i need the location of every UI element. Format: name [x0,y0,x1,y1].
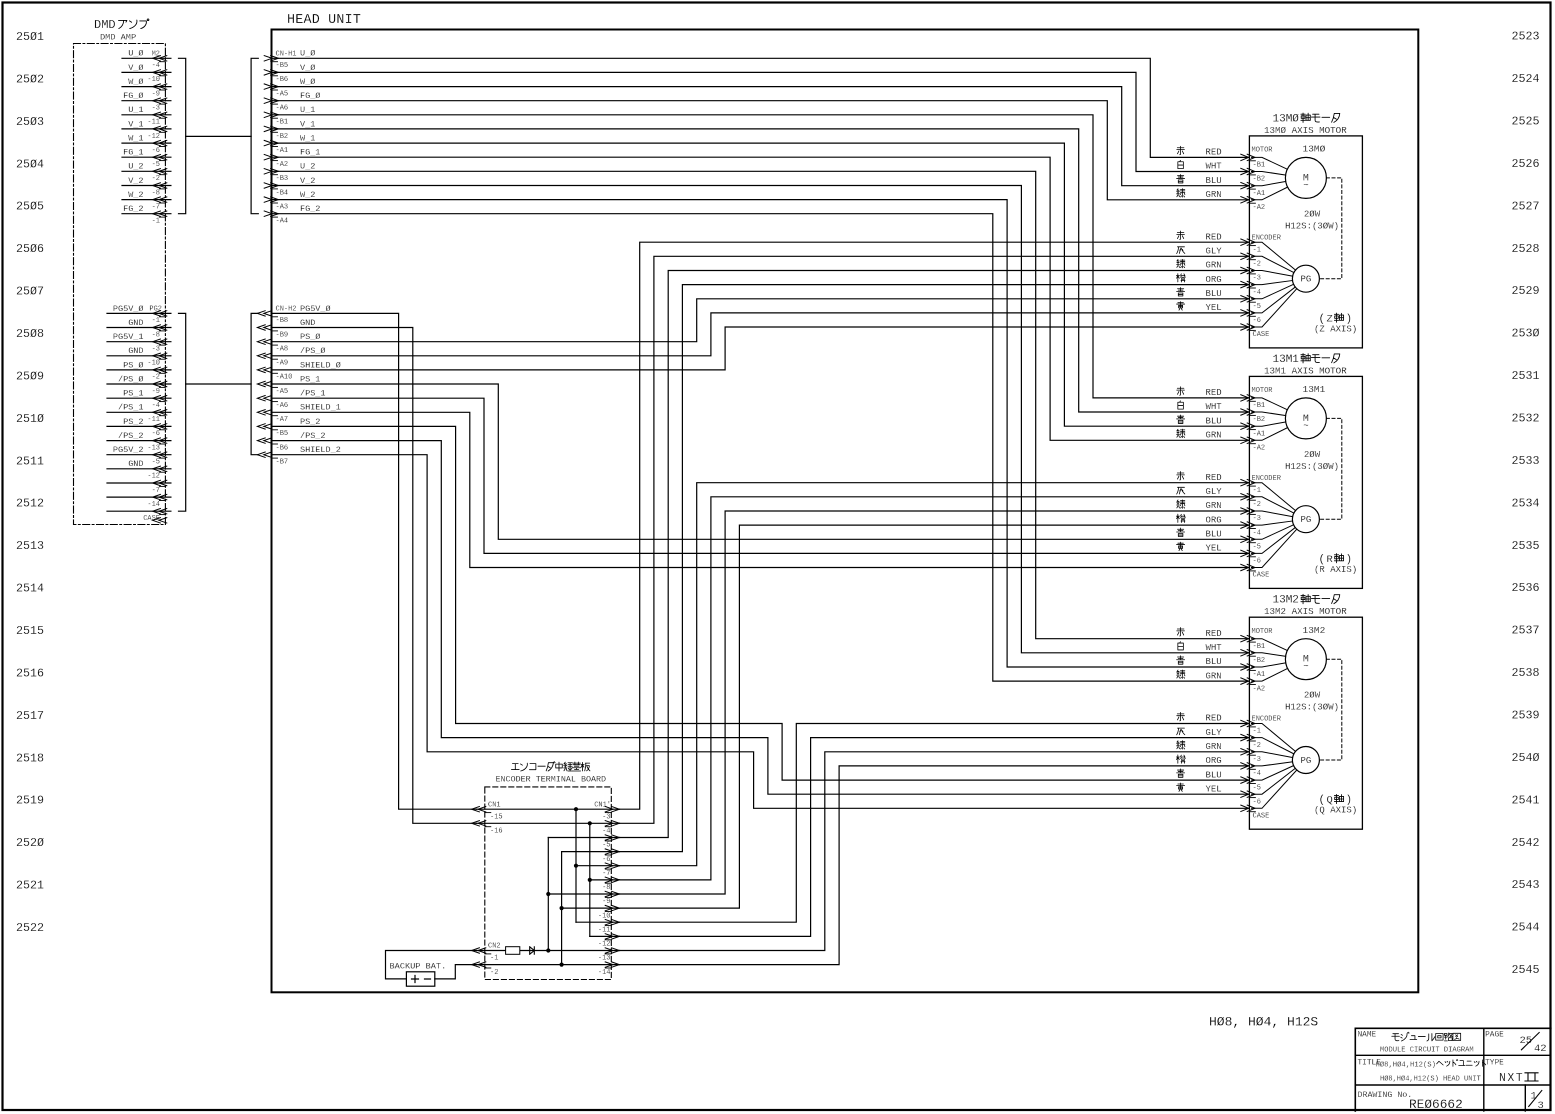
svg-text:2544: 2544 [1512,921,1540,935]
pin notch ENCODER -5 [1249,542,1255,544]
svg-text:-A2: -A2 [1253,445,1266,453]
motor box 13M0 [1249,136,1362,348]
connector pin chevron CN1' -14 [605,962,613,967]
svg-text:V_1: V_1 [128,119,143,129]
svg-text:-A6: -A6 [276,402,289,410]
wire board row8 BAT- axis1 [562,907,620,909]
wire DMD V_1 stub [122,128,171,130]
wire /PS_2 to 13M2 encoder -6 (YEL) with jog [272,441,1250,795]
svg-text:-6: -6 [1253,317,1261,325]
svg-text:2ØW: 2ØW [1304,691,1321,701]
wire V_1 CN-H1 to 13M1 motor [272,129,1250,412]
svg-text:U_1: U_1 [128,105,143,115]
pin lead ENCODER -6 13M2 [1252,768,1296,794]
svg-text:CASE: CASE [1253,572,1270,580]
colour kanji BLU [1177,528,1185,536]
svg-text:-8: -8 [152,189,160,197]
svg-text:WHT: WHT [1206,643,1223,653]
connector pin chevron PG2 -9 [159,381,167,386]
connector pin chevron CN-H1 -A3 [264,197,272,202]
svg-text:253Ø: 253Ø [1512,327,1540,341]
svg-text:GRN: GRN [1206,190,1222,200]
svg-text:-1: -1 [1253,246,1261,254]
svg-text:2545: 2545 [1512,963,1540,977]
pin notch MOTOR -B2 [1249,414,1255,416]
pin notch M2 -3 [159,103,165,105]
svg-text:H12S:(3ØW): H12S:(3ØW) [1285,221,1339,231]
svg-text:-B2: -B2 [1253,416,1266,424]
pin lead ENCODER -3 13M1 [1252,511,1293,517]
connector pin chevron CN-H2 -A10 [264,367,272,372]
svg-text:-12: -12 [147,473,160,481]
svg-text:-A7: -A7 [276,416,289,424]
pin notch MOTOR -B2 [1249,174,1255,176]
pin notch CN1' -4 [605,826,611,828]
svg-text:2516: 2516 [16,667,44,681]
svg-text:-A1: -A1 [1253,190,1266,198]
connector pin chevron CN-H1 -B4 [264,183,272,188]
junction GND bus top [588,821,592,825]
junction PG5V bus mid [574,864,578,868]
connector pin chevron CN1' -6 [605,849,613,854]
arrow into ENCODER pin -2 13M1 [1241,494,1249,500]
wire CN2-1 row through resistor/diode to CN1-prime -13 [477,950,620,952]
colour kanji BLU [1177,656,1185,664]
svg-text:DRAWING No.: DRAWING No. [1358,1091,1413,1100]
pin notch CN-H2 -A10 [272,372,278,374]
connector pin chevron PG2 -14 [159,494,167,499]
svg-text:2526: 2526 [1512,157,1540,171]
wire DMD U_2 stub [122,170,171,172]
svg-text:BLU: BLU [1206,657,1222,667]
svg-text:-8: -8 [152,331,160,339]
wire U_1 CN-H1 to 13M1 motor [272,115,1250,398]
wire DMD U_1 stub [122,114,171,116]
pin lead ENCODER -1 13M1 [1252,483,1296,511]
pin notch ENCODER -3 [1249,513,1255,515]
svg-text:-1: -1 [1253,728,1261,736]
svg-text:U_2: U_2 [300,162,315,172]
connector pin chevron CN-H1 -A1 [264,140,272,145]
wire DMD PG2 row -4 [107,397,171,399]
pin notch CN1 -16 [485,826,491,828]
arrow into MOTOR pin -B1 13M0 [1241,154,1249,160]
arrow into MOTOR pin -B1 13M1 [1241,395,1249,401]
svg-text:PG5V_1: PG5V_1 [113,332,144,342]
connector pin chevron PG2 -2 [159,367,167,372]
pin notch ENCODER -5 [1249,301,1255,303]
title block column line (1/3 cell) [1524,1085,1526,1111]
pin notch M2 -2 [159,174,165,176]
colour kanji GLY [1177,728,1185,735]
wire board row3 BAT+ [548,837,619,839]
pin notch MOTOR -A2 [1249,684,1255,686]
colour kanji GRN [1177,670,1185,678]
wire PS_0 to 13M0 encoder -5 (BLU) [272,299,1250,342]
svg-text:-A5: -A5 [276,90,289,98]
wire SHIELD_0 to 13M0 encoder CASE [272,327,1250,370]
title block row line 2 [1355,1084,1551,1086]
svg-text:25Ø2: 25Ø2 [16,72,44,86]
pin notch ENCODER CASE [1249,570,1255,572]
svg-text:-A2: -A2 [1253,204,1266,212]
wire W_1 CN-H1 to 13M1 motor [272,143,1250,426]
pin notch MOTOR -A2 [1249,202,1255,204]
svg-text:U_2: U_2 [128,162,143,172]
pin lead ENCODER -6 13M0 [1252,287,1296,313]
wire DMD PG2 row -3 [107,341,171,343]
svg-text:2532: 2532 [1512,412,1540,426]
pin notch CN1' -8 [605,882,611,884]
pin notch ENCODER CASE [1249,811,1255,813]
arrow into MOTOR pin -B2 13M2 [1241,650,1249,656]
svg-text:GND: GND [128,459,143,469]
arrow into MOTOR pin -A2 13M0 [1241,197,1249,203]
pin lead MOTOR -A2 13M1 [1252,428,1288,441]
wire DMD PG2 row -5 [107,454,171,456]
DMD AMP enclosure (dash-dot) [74,44,166,525]
svg-text:PAGE: PAGE [1485,1032,1504,1040]
connector pin chevron CN-H1 -B5 [264,56,272,61]
svg-text:NAME: NAME [1358,1032,1377,1040]
svg-text:NXT: NXT [1499,1072,1524,1085]
wire board row5 PG5V axis1 [576,865,620,867]
svg-text:-A10: -A10 [276,374,293,382]
colour kanji WHT [1178,401,1184,409]
svg-text:-A1: -A1 [1253,671,1266,679]
junction PG5V bus top [574,807,578,811]
pin notch CN-H2 -B6 [272,443,278,445]
colour kanji GRN [1177,741,1185,749]
svg-text:-B9: -B9 [276,331,289,339]
svg-text:2536: 2536 [1512,581,1540,595]
dashed shaft link M to PG 13M2 [1319,659,1341,760]
pin notch CN2 -1 [485,953,491,955]
arrow into ENCODER pin -2 13M2 [1241,734,1249,740]
svg-text:-2: -2 [490,969,498,977]
connector pin chevron CN-H1 -A5 [264,84,272,89]
svg-text:PG: PG [1300,275,1311,285]
pin lead ENCODER -2 13M0 [1252,256,1294,272]
pin lead MOTOR -B2 13M1 [1252,412,1286,416]
title block top edge [1355,1027,1551,1029]
wire DMD PG2 row -9 [107,383,171,385]
colour kanji WHT [1178,160,1184,168]
svg-text:252Ø: 252Ø [16,836,44,850]
pin notch CN1' -3 [605,812,611,814]
pin notch MOTOR -B2 [1249,655,1255,657]
wire DMD PG2 row CASE [107,510,171,512]
colour kanji YEL [1177,783,1185,791]
svg-text:FG_Ø: FG_Ø [123,91,143,101]
pin lead ENCODER -5 13M0 [1252,284,1294,299]
svg-text:-2: -2 [1253,261,1261,269]
arrow into MOTOR pin -B2 13M0 [1241,168,1249,174]
junction BAT+ bus mid [546,892,550,896]
connector pin chevron CN-H2 -B9 [264,325,272,330]
wire DMD PG2 row -2 [107,369,171,371]
connector pin chevron CN1' -8 [605,877,613,883]
svg-text:2521: 2521 [16,879,44,893]
svg-text:2539: 2539 [1512,709,1540,723]
svg-text:-16: -16 [490,828,503,836]
svg-text:-10: -10 [598,912,611,920]
svg-text:2528: 2528 [1512,242,1540,256]
pin notch MOTOR -B1 [1249,160,1255,162]
svg-text:2529: 2529 [1512,284,1540,298]
svg-text:-3: -3 [602,813,610,821]
svg-text:PG5V_Ø: PG5V_Ø [113,304,144,314]
pin lead MOTOR -B1 13M2 [1252,639,1288,651]
colour kanji GLY [1177,487,1185,494]
svg-text:-10: -10 [147,360,160,368]
svg-text:YEL: YEL [1206,303,1222,313]
svg-text:-2: -2 [1253,501,1261,509]
wire DMD V_2 stub [122,185,171,187]
svg-text:-2: -2 [152,175,160,183]
encoder symbol PG circle 13M0 [1292,265,1319,292]
pin lead MOTOR -A1 13M0 [1252,182,1286,186]
svg-text:GLY: GLY [1206,487,1223,497]
pin lead ENCODER -4 13M2 [1252,762,1293,766]
colour kanji GRN [1177,500,1185,508]
pin notch CN-H2 -B9 [272,330,278,332]
pin notch CN1' -9 [605,896,611,898]
arrow into MOTOR pin -A1 13M1 [1241,423,1249,429]
svg-text:-5: -5 [1253,303,1261,311]
svg-text:13MØ AXIS MOTOR: 13MØ AXIS MOTOR [1264,125,1347,136]
pin notch ENCODER -1 [1249,726,1255,728]
svg-text:/PS_2: /PS_2 [118,431,144,441]
svg-text:2519: 2519 [16,794,44,808]
svg-text:2522: 2522 [16,921,44,935]
svg-text:PS_1: PS_1 [300,374,320,384]
svg-text:BLU: BLU [1206,770,1222,780]
svg-text:REØ6662: REØ6662 [1409,1097,1463,1112]
connector pin chevron M2 -8 [159,183,167,188]
svg-text:PG5V_2: PG5V_2 [113,445,144,455]
pin notch CN1' -13 [605,953,611,955]
svg-text:CN-H1: CN-H1 [276,50,297,58]
wire SHIELD_2 to 13M2 encoder CASE with jog [272,455,1250,809]
svg-text:-4: -4 [1253,529,1261,537]
svg-text:SHIELD_1: SHIELD_1 [300,403,341,413]
arrow into MOTOR pin -A1 13M0 [1241,183,1249,189]
wire W_0 CN-H1 to 13M0 motor [272,87,1250,186]
svg-text:-4: -4 [152,402,160,410]
svg-text:~: ~ [1303,180,1308,190]
connector pin chevron CN-H2 -B5 [264,424,272,429]
svg-text:-B2: -B2 [1253,176,1266,184]
svg-text:GLY: GLY [1206,247,1223,257]
wire DMD W_2 stub [122,199,171,201]
wire terminal board CN1' row 6 (GND) to 13M1 encoder [620,497,1250,880]
svg-text:GND: GND [128,318,143,328]
colour kanji BLU [1177,288,1185,296]
svg-text:13M2 AXIS MOTOR: 13M2 AXIS MOTOR [1264,606,1347,617]
pin notch CN-H1 -A3 [272,202,278,204]
svg-text:GRN: GRN [1206,671,1222,681]
svg-text:GRN: GRN [1206,501,1222,511]
pin notch CN-H1 -A1 [272,146,278,148]
wire board row10 GND axis2 [590,935,620,937]
svg-text:-6: -6 [152,147,160,155]
svg-text:25Ø5: 25Ø5 [16,200,44,214]
svg-text:2533: 2533 [1512,454,1540,468]
connector pin chevron CN1' -7 [605,863,613,868]
wire terminal board CN1' row 4 (BAT-) to 13M0 encoder [620,285,1250,852]
svg-text:V_1: V_1 [300,119,315,129]
svg-text:-4: -4 [1253,770,1261,778]
wire DMD PG2 row -8 [107,327,171,329]
connector pin chevron CN-H2 -B7 [264,452,272,457]
colour kanji BLU [1177,769,1185,777]
pin lead MOTOR -B1 13M0 [1252,157,1288,169]
junction BAT- bus bottom [560,963,564,967]
connector pin chevron CN-H1 -A4 [264,211,272,216]
svg-text:DMD AMP: DMD AMP [100,33,136,43]
svg-text:HØ8,HØ4,H12(S) HEAD UNIT: HØ8,HØ4,H12(S) HEAD UNIT [1380,1074,1481,1083]
pin notch PG2 CASE [159,514,165,516]
title block row line 1 [1355,1054,1551,1056]
svg-text:YEL: YEL [1206,784,1222,794]
wire PG5V_0 CN-H2 to terminal board CN1 [272,313,477,809]
pin notch MOTOR -A1 [1249,669,1255,671]
connector pin chevron PG2 -3 [159,339,167,344]
svg-text:H12S:(3ØW): H12S:(3ØW) [1285,462,1339,472]
wire board row6 GND axis1 [590,879,620,881]
svg-text:-B1: -B1 [1253,402,1266,410]
wire terminal board CN1' row 7 (BAT+) to 13M1 encoder [620,511,1250,894]
pin notch PG2 -2 [159,372,165,374]
arrow into ENCODER pin CASE 13M1 [1241,564,1249,570]
svg-text:/PS_2: /PS_2 [300,431,326,441]
svg-text:W_2: W_2 [128,190,143,200]
wire DMD U_0 stub [122,57,171,59]
pin notch CN-H1 -B6 [272,75,278,77]
pin lead MOTOR -B2 13M0 [1252,172,1286,176]
svg-text:DMD: DMD [94,18,116,32]
arrow into ENCODER pin CASE 13M0 [1241,324,1249,330]
connector pin chevron PG2 -13 [159,438,167,443]
svg-text:W_2: W_2 [300,190,315,200]
cable bundle line (motor) [186,135,251,137]
svg-text:(Z AXIS): (Z AXIS) [1314,324,1357,334]
svg-text:-13: -13 [147,444,160,452]
svg-text:-1: -1 [1253,487,1261,495]
arrow into ENCODER pin -6 13M2 [1241,791,1249,797]
pin notch PG2 -8 [159,330,165,332]
colour kanji WHT [1178,642,1184,650]
connector pin chevron PG2 CASE (no wire) [159,518,167,523]
svg-text:-14: -14 [147,501,160,509]
arrow into MOTOR pin -A2 13M1 [1241,437,1249,443]
svg-text:H12S:(3ØW): H12S:(3ØW) [1285,703,1339,713]
svg-text:-3: -3 [1253,756,1261,764]
arrow into ENCODER pin -4 13M1 [1241,522,1249,528]
svg-text:V_2: V_2 [128,176,143,186]
svg-text:CN1: CN1 [488,802,501,810]
svg-text:PG: PG [1300,515,1311,525]
svg-text:GND: GND [128,346,143,356]
pin notch ENCODER -1 [1249,485,1255,487]
svg-text:TYPE: TYPE [1485,1060,1504,1068]
motor symbol M circle 13M2 [1285,639,1326,680]
pin notch PG2 -5 [159,457,165,459]
wire U_2 CN-H1 to 13M2 motor [272,171,1250,638]
svg-text:GRN: GRN [1206,261,1222,271]
pin lead MOTOR -A2 13M0 [1252,187,1288,200]
arrow into ENCODER pin -3 13M0 [1241,267,1249,273]
junction BAT- bus mid [560,906,564,910]
svg-text:25Ø4: 25Ø4 [16,157,44,171]
svg-text:PS_2: PS_2 [300,417,320,427]
svg-text:-6: -6 [1253,558,1261,566]
pin lead ENCODER -3 13M2 [1252,752,1293,758]
svg-text:-11: -11 [598,926,611,934]
wire board row2 GND [477,822,620,824]
pin notch CN1' -5 [605,840,611,842]
colour kanji ORG [1176,755,1185,763]
pin notch CN-H1 -A4 [272,216,278,218]
wire board row9 PG5V axis2 [576,921,620,923]
svg-text:-A4: -A4 [276,218,289,226]
svg-text:FG_Ø: FG_Ø [300,91,320,101]
svg-text:-B7: -B7 [276,459,289,467]
wire DMD W_1 stub [122,142,171,144]
pin lead ENCODER -1 13M0 [1252,242,1296,270]
svg-text:-7: -7 [602,870,610,878]
connector pin chevron CN1' -3 [605,807,613,812]
svg-text:2543: 2543 [1512,878,1540,892]
pin notch MOTOR -A1 [1249,188,1255,190]
connector pin chevron CN-H1 -B6 [264,70,272,75]
svg-text:ENCODER: ENCODER [1252,234,1282,242]
svg-text:-9: -9 [602,898,610,906]
pin notch ENCODER -4 [1249,287,1255,289]
connector pin chevron M2 -5 [159,155,167,160]
pin notch PG2 -3 [159,344,165,346]
svg-text:-7: -7 [152,203,160,211]
pin notch CN1' -14 [605,967,611,969]
svg-text:CASE: CASE [1253,813,1270,821]
pin notch MOTOR -B1 [1249,641,1255,643]
svg-text:-B1: -B1 [1253,643,1266,651]
svg-text:-6: -6 [1253,798,1261,806]
wire U_0 CN-H1 to 13M0 motor [272,58,1250,157]
colour kanji ORG [1176,514,1185,522]
svg-text:3: 3 [1538,1100,1544,1112]
pin notch M2 -10 [159,75,165,77]
motor box 13M2 [1249,617,1362,829]
pin notch M2 -8 [159,188,165,190]
colour kanji RED [1177,146,1185,154]
connector pin chevron CN1' -5 [605,835,613,840]
svg-text:13M1: 13M1 [1273,354,1300,366]
svg-text:2513: 2513 [16,539,44,553]
pin notch PG2 -4 [159,401,165,403]
svg-text:GND: GND [300,318,315,328]
svg-text:-1: -1 [152,218,160,226]
wire W_2 CN-H1 to 13M2 motor [272,200,1250,667]
svg-text:-B8: -B8 [276,317,289,325]
connector pin chevron CN-H2 -B8 [264,311,272,316]
svg-text:ENCODER: ENCODER [1252,475,1282,483]
svg-text:-A2: -A2 [276,161,289,169]
junction GND bus mid [588,878,592,882]
connector pin chevron M2 -10 [159,70,167,75]
pin lead MOTOR -A1 13M2 [1252,663,1286,667]
